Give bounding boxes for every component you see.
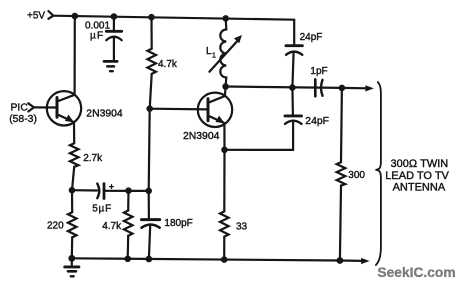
transistor Q2 2N3904 (198, 93, 232, 127)
wire C4 to junctions (104, 190, 149, 192)
wire bottom rail arrow to twin lead (340, 259, 363, 262)
wire mid rail arrow to twin lead (342, 87, 367, 90)
wire base rail junction down to C5 (149, 109, 150, 219)
node junction L1 / mid rail / Q2 collector (222, 83, 229, 90)
wire junction to R3 (71, 190, 73, 212)
node junction bottom rail / R4 (124, 255, 131, 262)
node junction mid rail / R6 (339, 85, 346, 92)
wire R6 to bottom rail (340, 186, 341, 261)
svg-text:1: 1 (212, 53, 216, 60)
capacitor C4 5uF plates (97, 184, 99, 199)
resistor R6 300 (337, 162, 346, 186)
svg-text:LEAD TO TV: LEAD TO TV (385, 170, 449, 182)
node junction top rail / L1 (222, 15, 229, 22)
inductor L1 variable arrow (209, 40, 238, 72)
wire R1 to junction (72, 167, 74, 190)
resistor R1 2.7k (70, 143, 79, 167)
capacitor C6 1pF plates (314, 79, 317, 96)
svg-text:33: 33 (236, 222, 248, 233)
svg-text:1pF: 1pF (310, 66, 327, 77)
svg-text:4.7k: 4.7k (102, 221, 122, 232)
svg-text:PIC: PIC (11, 102, 29, 113)
wire C5 to bottom rail (149, 225, 150, 259)
svg-text:SeekIC.com: SeekIC.com (377, 265, 455, 280)
node junction C4 rail / R4 (125, 187, 132, 194)
capacitor C5 180pF plates (142, 218, 160, 221)
svg-text:24pF: 24pF (300, 32, 323, 43)
svg-text:ANTENNA: ANTENNA (393, 181, 446, 193)
node PIC input chevron (28, 103, 34, 111)
node junction Q2 emitter (221, 147, 228, 154)
wire mid rail (226, 87, 342, 88)
node junction bottom rail / ground (68, 255, 75, 262)
wire Q2 collector up to L1 junction (224, 87, 227, 97)
svg-text:4.7k: 4.7k (158, 59, 178, 70)
resistor R6 300 lead from mid rail (340, 88, 343, 162)
node junction C4 rail / C5 line (145, 188, 152, 195)
svg-text:2N3904: 2N3904 (183, 131, 220, 142)
svg-text:+5V: +5V (27, 11, 45, 22)
wire R4 to bottom rail (127, 236, 130, 259)
capacitor C1 0.001uF lead (113, 17, 115, 30)
node junction base rail (146, 105, 153, 112)
wire bottom rail (72, 258, 340, 260)
wire R3 to bottom rail (71, 237, 74, 258)
brace twin lead (375, 82, 381, 265)
svg-text:5µF: 5µF (92, 204, 112, 215)
wire base rail to Q2 (150, 108, 208, 111)
node junction bottom rail / C5 (146, 256, 153, 263)
wire top rail (53, 16, 294, 20)
inductor L1 coil (220, 30, 226, 87)
svg-text:2N3904: 2N3904 (86, 108, 123, 119)
capacitor C3 24pF (lower) lead (291, 88, 294, 115)
node junction top rail / R2 (148, 14, 155, 21)
svg-text:220: 220 (47, 220, 64, 231)
resistor R4 4.7k (124, 211, 133, 236)
svg-text:µF: µF (90, 31, 104, 42)
ground (top, below C1) (104, 60, 117, 63)
wire PIC to Q1 base (34, 106, 57, 108)
resistor R2 4.7k (147, 49, 156, 74)
wire junction to R4 (127, 191, 130, 211)
wire C3 down and left to Q2 emitter (225, 122, 294, 150)
wire Q2 emitter down (223, 123, 225, 211)
wire top rail corner down to C2 (293, 20, 295, 45)
wire C1 to ground (113, 38, 115, 61)
svg-text:180pF: 180pF (164, 218, 192, 229)
label + (C4 polarity) (110, 185, 114, 189)
wire C2 down to mid rail (292, 52, 293, 88)
svg-text:300Ω TWIN: 300Ω TWIN (391, 158, 449, 170)
node junction bottom rail / R6 (337, 257, 344, 264)
node junction emitter / C4 rail (69, 187, 76, 194)
wire Q1 collector vertical (73, 16, 75, 95)
wire R5 to bottom rail (223, 237, 225, 260)
ground (bottom left) (71, 258, 73, 266)
resistor R3 220 (68, 212, 77, 237)
capacitor C3 24pF plates (285, 114, 302, 117)
wire Q1 emitter down (73, 122, 75, 143)
transistor Q1 2N3904 (47, 91, 81, 125)
capacitor C4 5uF wire left (72, 189, 97, 192)
wire R2 to base rail (150, 74, 152, 109)
inductor L1 leads (225, 18, 228, 29)
resistor R2 4.7k lead top (150, 17, 152, 49)
capacitor C2 24pF plates (286, 44, 302, 47)
svg-text:2.7k: 2.7k (83, 153, 103, 164)
node +5V input chevron (48, 11, 53, 19)
node junction top rail / Q1 collector (72, 13, 79, 20)
node junction bottom rail / R5 (221, 256, 228, 263)
node junction top rail / C1 (111, 13, 118, 20)
svg-text:(58-3): (58-3) (9, 114, 37, 125)
svg-text:24pF: 24pF (305, 116, 329, 127)
node junction mid rail / C2,C3 (289, 84, 296, 91)
svg-text:300: 300 (348, 170, 365, 181)
resistor R5 33 (220, 211, 229, 236)
capacitor C1 0.001uF plates (106, 30, 121, 33)
